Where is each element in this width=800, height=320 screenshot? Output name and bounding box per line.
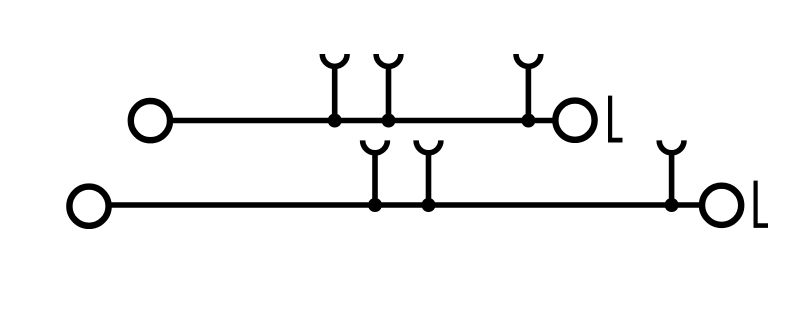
- terminal circle 1.2 (top right clamp): [555, 101, 594, 140]
- wire top level: [170, 118, 555, 124]
- test tap fork T5: [416, 140, 441, 205]
- terminal circle 2.1 (bottom left clamp): [69, 187, 108, 226]
- terminal circle 2.2 (bottom right clamp): [702, 186, 741, 225]
- test tap fork T2: [376, 54, 401, 121]
- junction dot J5: [422, 198, 436, 212]
- wire bottom level: [109, 202, 701, 208]
- test tap fork T1: [322, 54, 347, 121]
- junction dot J3: [521, 114, 535, 128]
- junction dot J6: [665, 198, 679, 212]
- junction dot J4: [368, 198, 382, 212]
- test tap fork T6: [659, 140, 684, 205]
- test tap fork T4: [363, 140, 388, 205]
- label L (top): [608, 96, 623, 143]
- terminal circle 1.1 (top left clamp): [131, 101, 170, 140]
- test tap fork T3: [516, 54, 541, 121]
- junction dot J2: [382, 114, 396, 128]
- label L (bottom): [754, 181, 769, 228]
- junction dot J1: [328, 114, 342, 128]
